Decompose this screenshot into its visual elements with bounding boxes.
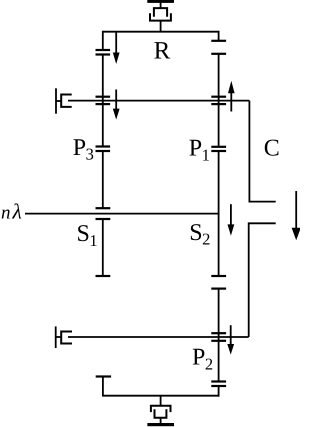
wire right column bottom: [218, 386, 220, 397]
frame support bottom: [147, 396, 174, 427]
wire left column lower: [102, 151, 104, 208]
wire S1 shaft: [102, 219, 104, 276]
svg-text:P2: P2: [192, 345, 213, 374]
arrow A2 down: [113, 90, 120, 120]
gear mesh bar above brake wire right: [211, 96, 226, 98]
gear mesh P1 lower bar: [211, 150, 226, 152]
wire left column middle: [102, 55, 104, 147]
svg-text:C: C: [264, 135, 280, 161]
sun gear S1 bottom bar: [96, 275, 111, 277]
gear mesh R-P3 upper bar: [96, 49, 111, 51]
arrow A3 up: [228, 81, 235, 112]
bar end bottom left: [96, 375, 111, 377]
wire right column top drop: [218, 31, 220, 41]
gear mesh P1 upper bar: [211, 146, 226, 148]
frame support top: [147, 0, 174, 33]
wire brake band lower: [68, 336, 249, 338]
gear mesh P2 upper bar: [211, 380, 226, 382]
sun gear S2 bottom bar: [211, 275, 226, 277]
svg-text:nλ: nλ: [1, 199, 22, 223]
svg-text:R: R: [154, 38, 171, 65]
svg-text:S2: S2: [189, 220, 210, 249]
gear mesh bar below lower brake wire: [211, 340, 226, 342]
wire input shaft n-lambda: [25, 213, 219, 215]
wire left column upper: [102, 31, 104, 49]
arrow A1 down: [113, 32, 120, 64]
wire bottom: [102, 395, 220, 397]
bar top of lower right shaft: [211, 288, 226, 290]
gear mesh bar above brake wire: [96, 96, 111, 98]
gear mesh R-P3 lower bar: [96, 53, 111, 55]
gear mesh bar below brake wire: [96, 103, 111, 105]
bar end above input line: [96, 207, 111, 209]
gear mesh P2 lower bar: [211, 385, 226, 387]
gear mesh P3 lower bar: [96, 150, 111, 152]
wire right column middle: [218, 151, 220, 276]
arrow A6 down: [227, 325, 234, 354]
svg-text:S1: S1: [77, 221, 98, 250]
arrow A5 output down: [292, 191, 301, 240]
clutch C lower plate: [249, 223, 276, 337]
arrow A4 down: [228, 204, 235, 236]
gear mesh P3 upper bar: [96, 145, 111, 147]
sun gear S1 top bar: [96, 218, 111, 220]
brake bracket lower left: [56, 326, 72, 348]
wire right column upper: [218, 54, 220, 147]
wire bottom left stem: [102, 377, 104, 396]
bar end P1 top: [211, 53, 226, 55]
bar end R right: [211, 40, 226, 42]
brake bracket upper left: [56, 88, 72, 113]
svg-text:P1: P1: [189, 136, 210, 165]
gear mesh bar above lower brake wire: [211, 332, 226, 334]
svg-text:P3: P3: [73, 135, 94, 164]
clutch C upper plate: [249, 101, 275, 202]
wire R ring top: [103, 31, 219, 33]
gear mesh bar below brake wire right: [211, 103, 226, 105]
wire right column lower: [218, 289, 220, 382]
wire brake band upper: [68, 100, 249, 102]
